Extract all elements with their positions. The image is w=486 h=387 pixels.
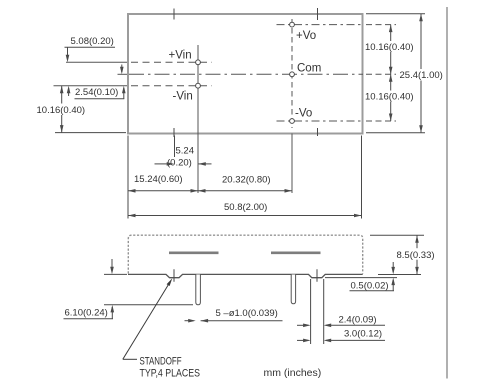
standoff tick top edge left: [173, 9, 175, 20]
standoff leader arrowhead: [167, 278, 173, 286]
dim 2.54 top arrow: [121, 65, 123, 73]
+Vo row extension (right): [366, 24, 396, 26]
side view body dashed outline: [128, 235, 362, 273]
label slot left: [169, 252, 219, 255]
right edge extension below: [361, 136, 363, 219]
output pin column extension below: [291, 134, 293, 194]
dim 5.08 top arrow: [67, 47, 69, 60]
pin -Vin: [196, 83, 201, 88]
standoff center extension below: [174, 136, 176, 158]
pin -Vo: [290, 119, 295, 124]
output pin column dashed line: [291, 19, 293, 128]
left edge extension below: [127, 136, 129, 219]
pin +Vin: [196, 60, 201, 65]
svg-text:-Vo: -Vo: [295, 108, 312, 120]
svg-text:5.24: 5.24: [176, 146, 195, 157]
pin +Vo: [290, 22, 295, 27]
dim 8.5 line: [416, 235, 418, 274]
svg-text:10.16(0.40): 10.16(0.40): [37, 105, 86, 116]
svg-text:2.54(0.10): 2.54(0.10): [75, 87, 118, 98]
dim 25.4(1.00) label: [398, 69, 446, 81]
standoff tick side view right: [316, 269, 318, 281]
pin Com: [290, 72, 295, 77]
Com row stub (left): [118, 73, 128, 75]
dim 3.0 left arrow: [297, 339, 309, 341]
package bottom extension (right): [366, 132, 425, 134]
svg-text:(0.20): (0.20): [167, 157, 192, 168]
label slot right: [271, 252, 321, 255]
standoff tick side view left: [173, 269, 175, 281]
standoff leader line: [123, 285, 169, 360]
svg-text:TYP,4 PLACES: TYP,4 PLACES: [140, 368, 201, 380]
svg-text:mm (inches): mm (inches): [264, 367, 322, 379]
output pin side view: [291, 275, 295, 304]
dim 5.24 left arrow: [155, 163, 168, 165]
svg-text:-Vin: -Vin: [173, 91, 193, 103]
dim 2.54 bottom arrow: [123, 88, 125, 99]
svg-text:+Vo: +Vo: [296, 30, 316, 42]
package top extension (right): [366, 13, 425, 15]
body bottom extension (right): [378, 274, 421, 276]
svg-text:5.08(0.20): 5.08(0.20): [71, 36, 114, 47]
-Vo row centerline: [277, 120, 364, 122]
dim 2.4 left arrow: [297, 324, 309, 326]
dim 10.16(0.40) left label: [35, 104, 86, 116]
dim 3.0 right line: [326, 339, 385, 341]
dim 25.4(1.00) line: [420, 14, 422, 133]
dim 0.5 underline: [350, 290, 395, 292]
standoff leader tail: [123, 358, 137, 360]
dim line 50.8: [128, 215, 362, 217]
package outline top view: [128, 14, 363, 134]
svg-text:50.8(2.00): 50.8(2.00): [224, 202, 267, 213]
dim o1.0 left arrow: [185, 320, 194, 322]
-Vin row extension line (left): [54, 85, 128, 87]
svg-text:Com: Com: [297, 63, 321, 75]
Com row extension (right): [366, 73, 396, 75]
+Vo row centerline: [277, 24, 364, 26]
dim 10.16(0.40) lower right label: [364, 91, 417, 102]
dim 2.54 leader underline: [75, 98, 125, 100]
dim 8.5(0.33) label: [395, 248, 439, 260]
input pin column line: [197, 45, 199, 193]
dim 10.16(0.40) left line: [61, 86, 63, 133]
pin tip extension line: [104, 304, 193, 306]
dim 6.10 bottom arrow: [111, 307, 113, 319]
svg-text:5 –ø1.0(0.039): 5 –ø1.0(0.039): [216, 308, 278, 319]
package bottom extension (left): [55, 132, 126, 134]
dim line 15.24 / 20.32: [128, 190, 292, 192]
svg-text:10.16(0.40): 10.16(0.40): [365, 92, 414, 103]
side view bottom edge with standoffs: [128, 274, 363, 277]
body bottom extension (left): [104, 273, 127, 275]
dim 6.10 underline: [64, 318, 114, 320]
svg-text:8.5(0.33): 8.5(0.33): [397, 250, 435, 261]
svg-text:6.10(0.24): 6.10(0.24): [65, 308, 108, 319]
page border line right: [446, 7, 448, 379]
svg-text:3.0(0.12): 3.0(0.12): [344, 328, 382, 339]
standoff width extension left: [310, 279, 312, 344]
svg-text:+Vin: +Vin: [169, 50, 192, 62]
dim o1.0 right stub: [201, 320, 283, 322]
svg-text:25.4(1.00): 25.4(1.00): [400, 70, 443, 81]
svg-text:STANDOFF: STANDOFF: [140, 355, 182, 368]
input pin side view: [196, 275, 201, 305]
-Vo row extension (right): [366, 120, 396, 122]
standoff tick top edge right: [317, 8, 319, 20]
dim 5.24 right arrow: [199, 163, 212, 165]
svg-text:15.24(0.60): 15.24(0.60): [134, 174, 183, 185]
standoff tick bottom edge left: [173, 128, 175, 137]
svg-text:20.32(0.80): 20.32(0.80): [222, 175, 271, 186]
svg-text:0.5(0.02): 0.5(0.02): [351, 281, 389, 292]
standoff width extension right: [323, 279, 325, 344]
dim 0.5 top arrow: [392, 262, 394, 272]
Com row centerline: [129, 73, 363, 75]
-Vin row centerline: [131, 85, 212, 87]
dim 5.08 bottom arrow: [68, 88, 70, 96]
svg-text:10.16(0.40): 10.16(0.40): [365, 42, 414, 53]
dim 6.10 top arrow: [111, 259, 113, 272]
dim 0.5 bottom arrow: [392, 280, 394, 291]
standoff tick bottom edge right: [317, 128, 319, 136]
standoff seating plane extension (right): [325, 277, 397, 279]
svg-text:2.4(0.09): 2.4(0.09): [339, 315, 377, 326]
dim 10.16(0.40) upper right label: [364, 41, 417, 52]
body top extension (right): [370, 234, 424, 236]
+Vin row centerline: [131, 61, 212, 63]
dim 2.4 right line: [326, 324, 385, 326]
dim 10.16 right line: [390, 25, 392, 121]
+Vin row extension line (left): [66, 61, 127, 63]
dim 5.08 leader underline: [65, 46, 116, 48]
